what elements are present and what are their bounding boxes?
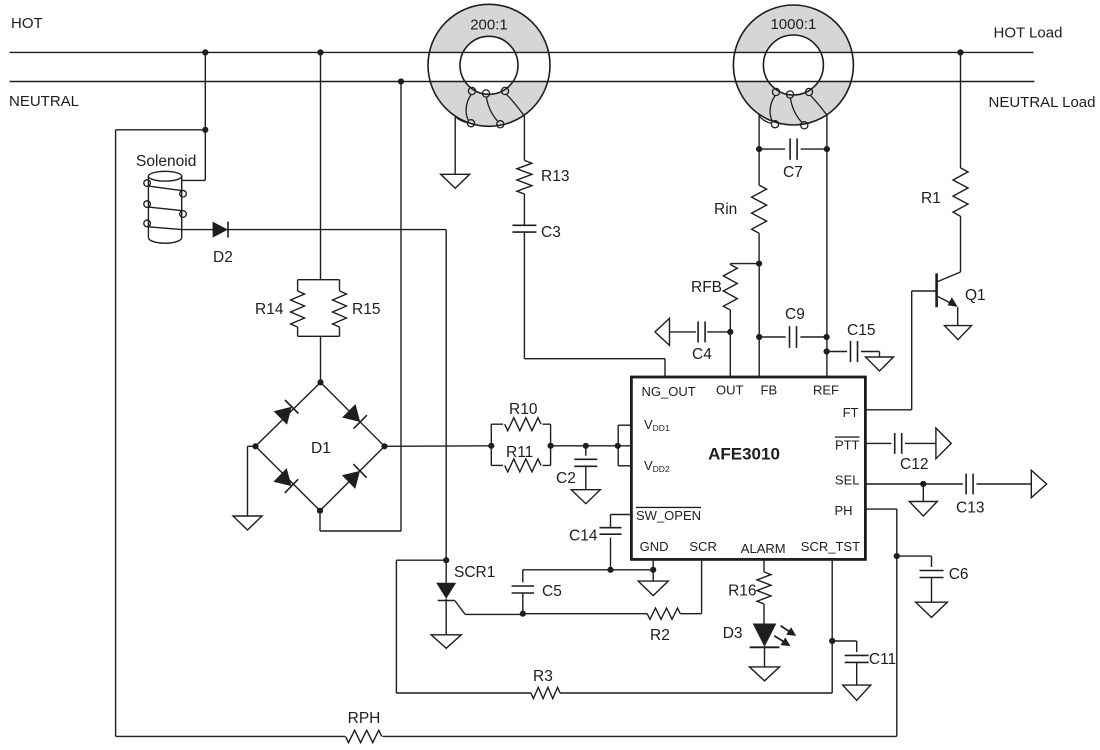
svg-text:HOT: HOT <box>11 15 43 32</box>
svg-text:RPH: RPH <box>348 710 381 727</box>
svg-text:200:1: 200:1 <box>470 16 508 33</box>
svg-text:C2: C2 <box>556 470 576 487</box>
svg-text:Solenoid: Solenoid <box>136 153 196 170</box>
svg-text:SW_OPEN: SW_OPEN <box>636 508 701 523</box>
svg-text:PTT: PTT <box>835 437 860 452</box>
svg-text:R16: R16 <box>728 583 756 600</box>
svg-text:SEL: SEL <box>835 473 860 488</box>
svg-text:SCR_TST: SCR_TST <box>801 539 860 554</box>
svg-text:R13: R13 <box>541 168 569 185</box>
svg-text:R1: R1 <box>921 190 941 207</box>
svg-text:Q1: Q1 <box>965 287 986 304</box>
svg-text:FT: FT <box>843 405 859 420</box>
svg-text:C3: C3 <box>541 224 561 241</box>
svg-text:C6: C6 <box>949 566 969 583</box>
svg-text:C9: C9 <box>785 306 805 323</box>
svg-text:D1: D1 <box>311 440 331 457</box>
svg-text:NG_OUT: NG_OUT <box>642 384 696 399</box>
svg-text:C14: C14 <box>569 528 598 545</box>
svg-text:NEUTRAL: NEUTRAL <box>9 93 79 110</box>
svg-text:C5: C5 <box>542 583 562 600</box>
svg-text:REF: REF <box>813 383 839 398</box>
svg-text:SCR1: SCR1 <box>454 564 495 581</box>
svg-text:RFB: RFB <box>691 279 722 296</box>
svg-text:R15: R15 <box>352 301 380 318</box>
svg-text:HOT Load: HOT Load <box>994 25 1063 42</box>
svg-text:C4: C4 <box>692 346 712 363</box>
svg-text:GND: GND <box>640 539 669 554</box>
svg-text:D3: D3 <box>723 625 743 642</box>
svg-text:PH: PH <box>834 503 852 518</box>
svg-text:OUT: OUT <box>716 383 744 398</box>
svg-text:C7: C7 <box>783 164 803 181</box>
svg-text:R3: R3 <box>533 668 553 685</box>
svg-text:FB: FB <box>761 383 778 398</box>
svg-text:SCR: SCR <box>689 539 716 554</box>
svg-text:C11: C11 <box>869 651 896 668</box>
svg-text:AFE3010: AFE3010 <box>708 444 780 463</box>
svg-text:ALARM: ALARM <box>741 541 786 556</box>
svg-text:R10: R10 <box>509 401 538 418</box>
svg-text:C12: C12 <box>900 456 928 473</box>
svg-text:NEUTRAL Load: NEUTRAL Load <box>989 94 1096 111</box>
svg-text:R14: R14 <box>255 301 284 318</box>
svg-text:R11: R11 <box>506 444 533 461</box>
svg-text:D2: D2 <box>213 249 233 266</box>
svg-text:1000:1: 1000:1 <box>770 16 816 33</box>
svg-text:R2: R2 <box>650 627 670 644</box>
svg-text:Rin: Rin <box>714 201 737 218</box>
svg-text:C13: C13 <box>956 500 984 517</box>
svg-text:C15: C15 <box>847 322 875 339</box>
